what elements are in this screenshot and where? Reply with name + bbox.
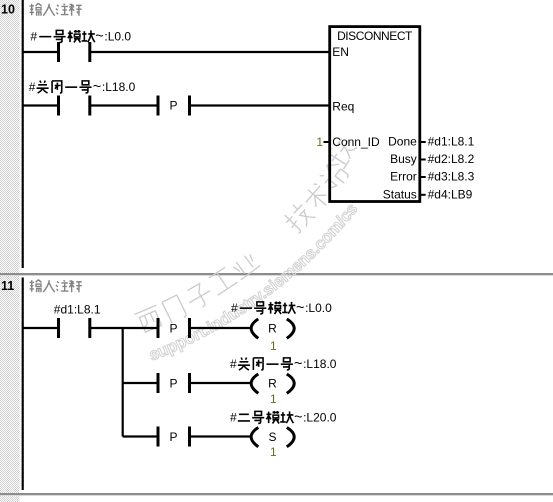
wire rung2 left [23, 104, 57, 106]
svg-text:~: ~ [296, 300, 304, 316]
svg-text:S: S [268, 430, 276, 444]
contact P (positive edge) rung2 [157, 96, 160, 116]
svg-text:P: P [170, 376, 178, 390]
stub wire Error [420, 176, 426, 178]
svg-text::L20.0: :L20.0 [303, 411, 337, 425]
svg-text:R: R [268, 377, 277, 391]
coil R branch1 [251, 319, 294, 338]
svg-text:EN: EN [332, 45, 349, 59]
branch 3: wire from branch vertical [123, 435, 157, 437]
label #一号模块~:L0.0 (rung 1) [30, 29, 131, 45]
svg-text:Req: Req [332, 99, 354, 113]
branch 2: wire from branch vertical [123, 382, 157, 384]
svg-text:#d1:L8.1: #d1:L8.1 [428, 135, 475, 149]
svg-text:~: ~ [95, 29, 103, 45]
svg-text:~: ~ [93, 79, 101, 95]
svg-text:~: ~ [294, 410, 302, 426]
svg-text:10: 10 [1, 3, 15, 17]
svg-text:1: 1 [270, 339, 277, 353]
coil R branch2 [251, 374, 294, 393]
watermark: 西门子工业 技术论坛 / support.industry.siemens.com/cs [141, 147, 401, 365]
svg-text:#: # [231, 301, 238, 315]
branch 2: contact P [157, 373, 160, 393]
stub wire Conn_ID [324, 141, 331, 143]
left power rail network 10 [22, 0, 24, 268]
wire rung1 to EN [91, 51, 330, 53]
svg-text::L0.0: :L0.0 [305, 301, 332, 315]
wire rung1 left [23, 51, 57, 53]
label #关闭一号~:L18.0 (branch 2) [230, 356, 337, 372]
svg-text:R: R [268, 322, 277, 336]
svg-text::L18.0: :L18.0 [102, 80, 136, 94]
branch 1: contact P [157, 318, 160, 338]
separator between network 10 and 11 [0, 273, 553, 275]
svg-text:#: # [230, 411, 237, 425]
svg-text:~: ~ [294, 356, 302, 372]
wire branch3 to coil [191, 435, 252, 437]
svg-text:P: P [170, 430, 178, 444]
svg-text:#: # [30, 30, 37, 44]
svg-text:1: 1 [270, 445, 277, 459]
svg-text:P: P [170, 321, 178, 335]
function block DISCONNECT U1 [330, 27, 420, 202]
gutter dithered column [0, 0, 20, 502]
svg-text:Error: Error [390, 170, 417, 184]
svg-text:#d3:L8.3: #d3:L8.3 [428, 170, 475, 184]
separator at bottom (next network) [0, 493, 553, 495]
label #二号模块~:L20.0 (branch 3) [230, 410, 337, 426]
branch 3: contact P [157, 427, 160, 447]
network title 输入注释 (gray) [30, 280, 82, 293]
svg-text:P: P [170, 99, 178, 113]
contact #d1:L8.1 (NO) [57, 318, 60, 338]
svg-text:1: 1 [270, 392, 277, 406]
wire main rung left [23, 327, 57, 329]
wire main rung to branch [91, 327, 157, 329]
contact #关闭一号 (NO) [57, 96, 60, 116]
svg-text:#d4:LB9: #d4:LB9 [428, 187, 473, 201]
wire branch2 to coil [191, 382, 252, 384]
stub wire Busy [420, 159, 426, 161]
svg-text:#d1:L8.1: #d1:L8.1 [54, 303, 101, 317]
svg-text:Done: Done [388, 135, 417, 149]
svg-text::L18.0: :L18.0 [303, 357, 337, 371]
label #一号模块~:L0.0 (branch 1) [231, 300, 332, 316]
contact #一号模块 (NO) [57, 42, 60, 62]
svg-text:#: # [230, 357, 237, 371]
network title 输入注释 (gray) [30, 3, 82, 16]
svg-text:Busy: Busy [390, 152, 417, 166]
svg-text:Status: Status [383, 187, 417, 201]
coil S branch3 [251, 428, 294, 447]
wire rung2 to Req [191, 104, 330, 106]
branch vertical wire [122, 328, 124, 437]
svg-text::L0.0: :L0.0 [104, 30, 131, 44]
svg-text:Conn_ID: Conn_ID [332, 135, 380, 149]
svg-text:11: 11 [1, 279, 14, 293]
svg-text:#: # [29, 80, 36, 94]
svg-text:DISCONNECT: DISCONNECT [337, 29, 413, 43]
wire branch1 to coil [191, 327, 252, 329]
svg-text:1: 1 [316, 135, 323, 149]
stub wire Done [420, 141, 426, 143]
label #关闭一号~:L18.0 (rung 2) [29, 79, 136, 95]
wire rung2 middle [91, 104, 157, 106]
left power rail network 11 [22, 278, 24, 491]
svg-text:#d2:L8.2: #d2:L8.2 [428, 152, 475, 166]
stub wire Status [420, 194, 426, 196]
